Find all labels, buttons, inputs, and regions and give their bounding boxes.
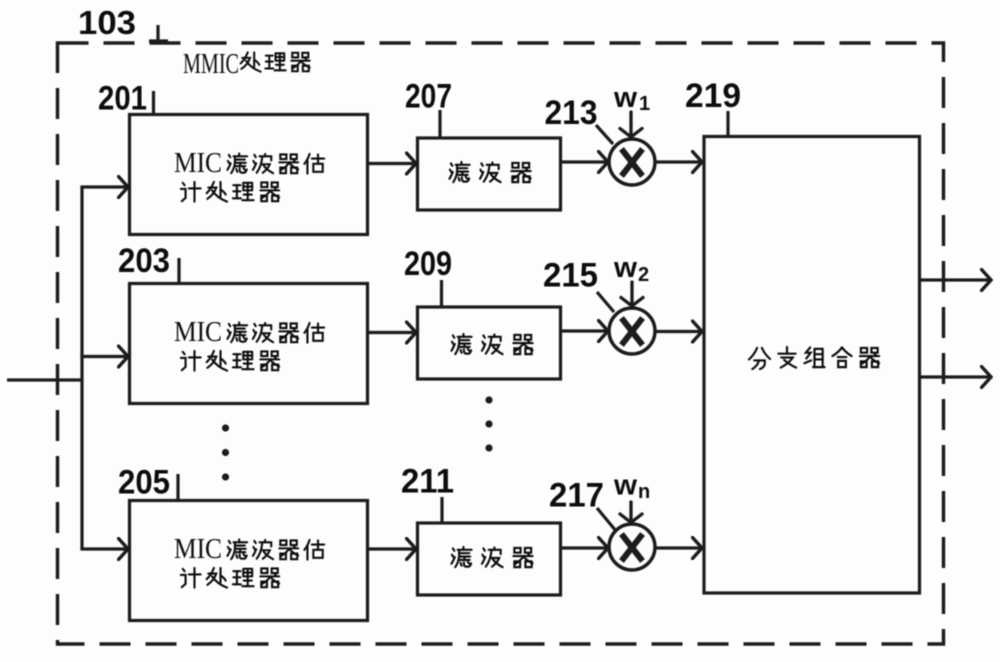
wire multiplier215 to combiner [654,330,702,333]
multiplier circle 217 [609,524,655,570]
wire block205 to filter211 [367,547,416,550]
block 203 text line2 [181,351,279,371]
filter box 207 text 滤波器 [449,162,530,182]
svg-text:2: 2 [638,264,649,286]
svg-text:MIC: MIC [174,148,222,179]
ellipsis dots between filter boxes [485,396,492,451]
multiplier circle 215 [609,308,655,354]
filter box 209 [418,307,561,379]
output arrow 2 [919,375,991,378]
svg-text:MIC: MIC [174,317,222,348]
svg-text:103: 103 [78,4,136,41]
svg-text:MIC: MIC [174,534,222,565]
multiplier circle 213 [609,139,655,185]
leader line 215 [597,292,614,312]
svg-text:MMIC: MMIC [183,48,239,80]
lead tick 219 [726,111,729,136]
svg-text:217: 217 [549,477,604,515]
wire block201 to filter207 [367,162,416,165]
block 201 text line1 MIC滤波器估 [174,148,324,179]
block 205 text line1 [174,534,324,565]
lead tick 203 [177,258,180,283]
wire multiplier217 to combiner [654,546,702,549]
svg-text:w: w [613,252,637,284]
filter box 211 [418,523,561,595]
block 205 text line2 [181,568,279,588]
svg-text:w: w [613,82,637,114]
title MMIC处理器 [183,48,310,80]
svg-text:1: 1 [639,93,650,115]
combiner block 219 [704,137,920,594]
weight wn arrow [620,502,642,523]
block 203 text line1 [174,317,324,348]
wire filter211 to multiplier217 [560,546,608,549]
block 201 text line2 计处理器 [181,182,279,202]
branch wire to block 201 [80,185,128,188]
wire filter207 to multiplier213 [560,160,608,163]
svg-text:205: 205 [118,464,170,502]
lead tick 207 [438,110,441,138]
leader line 217 [597,508,616,531]
filter box 209 text 滤波器 [451,334,532,354]
lead tick 201 [152,91,155,114]
svg-text:w: w [613,470,637,502]
branch wire to block 205 [80,547,128,550]
branch wire to block 203 [80,355,128,358]
wire block203 to filter209 [367,331,416,334]
lead tick 209 [440,280,443,307]
combiner text 分支组合器 [749,347,879,369]
leader line 213 [596,125,613,144]
lead tick for 103 [149,25,168,41]
filter box 207 [418,138,561,210]
svg-text:215: 215 [543,257,598,295]
svg-text:207: 207 [405,78,452,116]
weight w1 arrow [620,112,642,137]
wire filter209 to multiplier215 [560,329,608,332]
weight w2 arrow [621,282,643,306]
svg-text:209: 209 [404,245,452,283]
lead tick 205 [176,474,179,500]
svg-text:203: 203 [118,242,170,280]
svg-text:213: 213 [545,94,598,132]
block 203 [130,284,368,404]
svg-text:219: 219 [685,77,741,115]
lead tick 211 [440,497,443,523]
input bus vertical [80,187,83,549]
input line [7,378,82,381]
output arrow 1 [919,278,991,281]
svg-text:211: 211 [401,463,454,501]
wire multiplier213 to combiner [654,160,702,163]
block 205 [130,501,368,621]
ellipsis dots between blocks [222,424,229,480]
svg-text:201: 201 [98,80,147,118]
block 201: MIC filter estimation processor [130,115,368,235]
filter box 211 text 滤波器 [451,547,532,567]
svg-text:n: n [638,481,650,503]
